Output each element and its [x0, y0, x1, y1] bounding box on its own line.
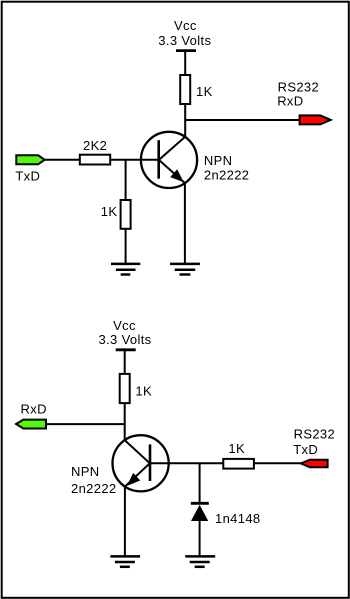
wire Vcc to R3	[124, 350, 126, 375]
svg-text:TxD: TxD	[15, 169, 40, 184]
svg-text:RxD: RxD	[21, 402, 47, 417]
svg-text:3.3 Volts: 3.3 Volts	[158, 33, 211, 48]
svg-text:RS232: RS232	[294, 427, 336, 442]
svg-text:2K2: 2K2	[83, 138, 107, 153]
svg-text:NPN: NPN	[71, 464, 100, 479]
diode D1 1n4148 (cathode bar)	[191, 502, 209, 505]
resistor R2 1K (base to ground)	[121, 200, 131, 229]
wire junction down to D1	[199, 463, 201, 503]
svg-text:NPN: NPN	[204, 153, 233, 168]
wire emitter Q2 to ground	[124, 486, 126, 556]
wire R1 to collector node	[184, 104, 186, 137]
resistor R5 2K2 (base series)	[80, 155, 110, 165]
wire R4 to RS232 TxD port	[254, 462, 301, 464]
ground G4	[185, 556, 215, 566]
diode D1 1n4148 (anode triangle)	[191, 505, 208, 521]
ground G2	[170, 264, 200, 275]
resistor R4 1K (RS232 series)	[223, 459, 254, 469]
wire base Q2 to R4	[150, 462, 224, 464]
wire R2 to ground	[125, 228, 127, 264]
svg-text:1K: 1K	[196, 84, 213, 99]
transistor Q1 NPN 2n2222	[141, 132, 197, 188]
wire emitter Q1 to ground	[184, 183, 186, 264]
resistor R1 1K (pull-up)	[180, 75, 190, 104]
ground G1	[111, 264, 140, 275]
svg-text:1n4148: 1n4148	[215, 511, 260, 526]
svg-text:1K: 1K	[101, 204, 118, 219]
port TxD (green arrow)	[16, 155, 44, 164]
svg-text:Vcc: Vcc	[174, 18, 197, 33]
wire collector node to RS232 RxD	[184, 119, 299, 121]
port RS232 TxD (red arrow, points left)	[301, 460, 328, 468]
wire R3 to collector node	[124, 403, 126, 441]
svg-text:2n2222: 2n2222	[71, 481, 116, 496]
ground G3	[110, 556, 140, 566]
transistor Q2 NPN 2n2222 (mirrored)	[113, 435, 169, 491]
svg-text:Vcc: Vcc	[113, 318, 136, 333]
power rail bar Vcc (bottom)	[116, 348, 136, 351]
wire collector node to RxD port	[46, 423, 126, 425]
wire junction down to R2	[125, 160, 127, 201]
port RS232 RxD (red arrow)	[300, 115, 331, 124]
svg-text:RxD: RxD	[277, 93, 303, 108]
svg-text:1K: 1K	[228, 441, 245, 456]
svg-text:TxD: TxD	[293, 442, 318, 457]
svg-text:1K: 1K	[135, 384, 152, 399]
svg-text:2n2222: 2n2222	[204, 168, 249, 183]
wire Vcc to R1	[184, 51, 186, 76]
power rail bar Vcc	[176, 49, 196, 52]
wire TxD to R5	[45, 159, 81, 161]
port RxD (green arrow, points left)	[16, 420, 46, 429]
wire D1 to ground	[199, 520, 201, 556]
resistor R3 1K (pull-up bottom)	[120, 374, 130, 403]
svg-text:3.3 Volts: 3.3 Volts	[98, 332, 151, 347]
svg-text:RS232: RS232	[278, 79, 320, 94]
wire R5 to base of Q1	[110, 159, 159, 161]
